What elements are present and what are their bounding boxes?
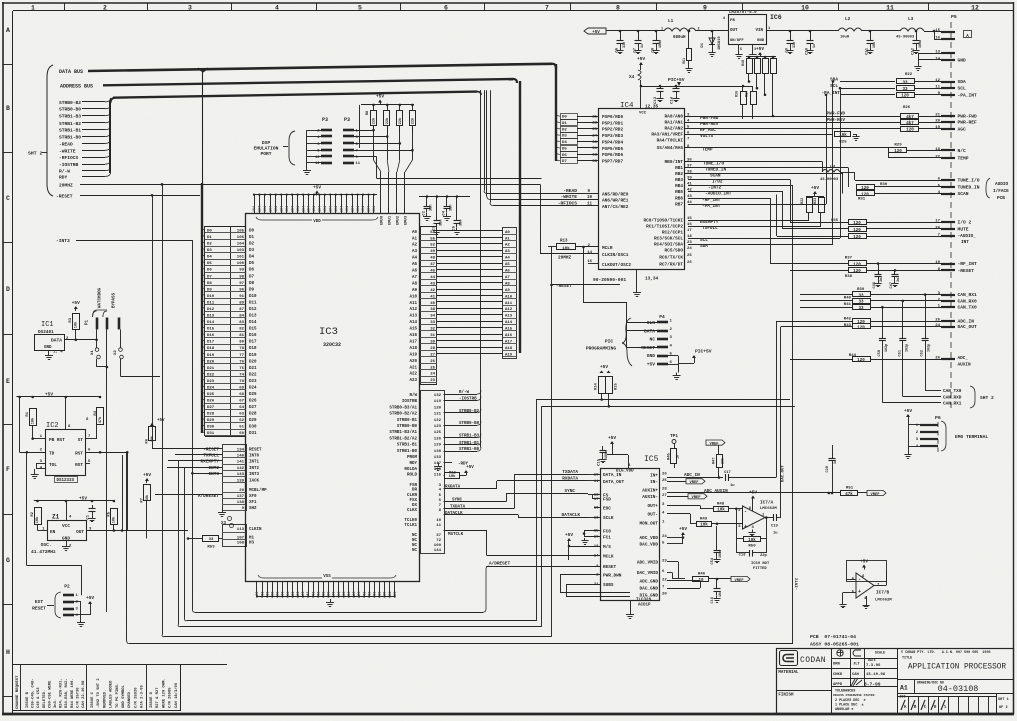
svg-text:A9: A9 bbox=[412, 289, 418, 293]
svg-text:FC0: FC0 bbox=[603, 529, 611, 534]
svg-text:102p: 102p bbox=[885, 344, 889, 352]
svg-text:R38: R38 bbox=[845, 275, 853, 279]
svg-text:104: 104 bbox=[285, 206, 289, 212]
svg-text:22: 22 bbox=[592, 122, 597, 126]
svg-text:C50: C50 bbox=[878, 350, 882, 356]
svg-text:I/O2: I/O2 bbox=[712, 180, 723, 185]
svg-text:ROLD: ROLD bbox=[407, 473, 418, 477]
svg-text:RESET: RESET bbox=[603, 565, 617, 570]
svg-text:2 PLACES DEC ±: 2 PLACES DEC ± bbox=[835, 699, 866, 703]
svg-text:STRB1-B1: STRB1-B1 bbox=[459, 442, 480, 446]
svg-text:DATA_OUT: DATA_OUT bbox=[603, 480, 624, 485]
svg-text:C11: C11 bbox=[866, 47, 870, 55]
svg-text:120: 120 bbox=[857, 359, 865, 363]
svg-text:12: 12 bbox=[971, 4, 979, 11]
svg-text:A1: A1 bbox=[412, 237, 418, 241]
svg-text:3: 3 bbox=[188, 4, 192, 11]
svg-text:X4: X4 bbox=[629, 75, 635, 80]
svg-text:+5V: +5V bbox=[860, 559, 868, 565]
svg-text:VSS: VSS bbox=[323, 575, 331, 579]
svg-text:126: 126 bbox=[434, 437, 442, 441]
svg-text:D5: D5 bbox=[562, 147, 567, 151]
svg-text:UNLESS OTHERWISE STATED: UNLESS OTHERWISE STATED bbox=[833, 694, 875, 697]
svg-text:PROGRAMMING: PROGRAMMING bbox=[586, 346, 617, 352]
svg-text:ADDRESS BUS: ADDRESS BUS bbox=[60, 84, 93, 90]
svg-text:8-7-99: 8-7-99 bbox=[864, 682, 881, 688]
svg-text:D6: D6 bbox=[249, 269, 255, 273]
svg-text:-INT2: -INT2 bbox=[708, 186, 722, 191]
svg-text:37: 37 bbox=[687, 165, 692, 169]
svg-text:R4: R4 bbox=[94, 410, 98, 415]
svg-text:LABLES ADDED: LABLES ADDED bbox=[110, 680, 114, 708]
svg-text:R16: R16 bbox=[736, 91, 740, 97]
svg-text:37: 37 bbox=[436, 534, 441, 538]
svg-text:41.472MHz: 41.472MHz bbox=[31, 549, 56, 555]
svg-text:86: 86 bbox=[362, 592, 366, 596]
svg-text:18: 18 bbox=[935, 148, 940, 152]
svg-text:WERE 120 OHM.: WERE 120 OHM. bbox=[162, 678, 166, 708]
svg-text:17: 17 bbox=[935, 219, 940, 223]
svg-text:119: 119 bbox=[434, 400, 442, 404]
svg-text:MCLK: MCLK bbox=[603, 554, 614, 559]
svg-text:100n: 100n bbox=[919, 40, 923, 48]
svg-text:+5V: +5V bbox=[45, 393, 53, 398]
svg-text:INT: INT bbox=[961, 240, 969, 245]
svg-text:47k: 47k bbox=[98, 416, 103, 423]
svg-text:HJA 2-3-99: HJA 2-3-99 bbox=[141, 684, 145, 708]
svg-text:130: 130 bbox=[434, 450, 442, 454]
svg-text:R/W: R/W bbox=[409, 393, 417, 398]
svg-text:STRB0-B2: STRB0-B2 bbox=[59, 100, 81, 106]
svg-text:PSP0/RD0: PSP0/RD0 bbox=[602, 115, 623, 120]
svg-text:C3: C3 bbox=[433, 225, 437, 230]
svg-text:86: 86 bbox=[383, 592, 387, 596]
svg-text:10k: 10k bbox=[562, 246, 570, 251]
svg-text:DAC_OUT: DAC_OUT bbox=[782, 465, 786, 482]
svg-text:C54: C54 bbox=[711, 557, 715, 564]
svg-text:P3: P3 bbox=[344, 117, 350, 123]
svg-text:33: 33 bbox=[858, 294, 864, 298]
svg-text:104: 104 bbox=[279, 206, 283, 212]
svg-text:33n: 33n bbox=[460, 220, 464, 226]
svg-text:D17: D17 bbox=[249, 341, 257, 345]
svg-text:FSX: FSX bbox=[409, 499, 417, 503]
svg-text:ISSUE C: ISSUE C bbox=[91, 691, 95, 708]
svg-text:13: 13 bbox=[594, 516, 599, 520]
svg-text:OUT+: OUT+ bbox=[647, 504, 658, 509]
svg-text:33: 33 bbox=[858, 307, 864, 311]
svg-text:38: 38 bbox=[687, 171, 692, 175]
svg-text:C6: C6 bbox=[616, 47, 620, 52]
svg-text:H: H bbox=[6, 649, 10, 656]
svg-text:PCB 07-01741-04: PCB 07-01741-04 bbox=[810, 634, 856, 640]
svg-text:104: 104 bbox=[329, 206, 333, 212]
svg-text:IC7/A: IC7/A bbox=[760, 501, 774, 506]
svg-text:104: 104 bbox=[258, 206, 262, 212]
svg-text:33n: 33n bbox=[440, 220, 444, 226]
svg-text:CHANGED.: CHANGED. bbox=[128, 690, 132, 708]
svg-text:RC2/CCP1: RC2/CCP1 bbox=[662, 231, 683, 236]
svg-text:G: G bbox=[6, 557, 10, 564]
svg-text:IC1: IC1 bbox=[41, 321, 54, 329]
svg-text:21: 21 bbox=[592, 115, 597, 119]
svg-text:3n3: 3n3 bbox=[897, 276, 901, 282]
svg-text:-IOSTRB: -IOSTRB bbox=[459, 397, 477, 401]
svg-text:109: 109 bbox=[434, 544, 442, 548]
svg-text:D22: D22 bbox=[249, 373, 257, 377]
svg-text:+5V: +5V bbox=[904, 408, 912, 414]
svg-text:144: 144 bbox=[434, 549, 442, 553]
svg-text:102p: 102p bbox=[928, 344, 932, 352]
svg-text:RC0/T1OSO/T1CKI: RC0/T1OSO/T1CKI bbox=[643, 219, 683, 224]
svg-text:+5V: +5V bbox=[86, 595, 94, 601]
svg-text:23: 23 bbox=[662, 559, 667, 563]
svg-text:WATCHDOG: WATCHDOG bbox=[99, 287, 103, 308]
svg-text:107: 107 bbox=[237, 536, 245, 540]
svg-text:33: 33 bbox=[902, 88, 908, 92]
svg-text:36: 36 bbox=[687, 159, 692, 163]
svg-text:DATA BUS: DATA BUS bbox=[59, 69, 83, 75]
svg-text:SHT 2: SHT 2 bbox=[980, 395, 994, 401]
svg-text:A8: A8 bbox=[412, 282, 418, 286]
svg-text:STRB1-B1: STRB1-B1 bbox=[397, 444, 418, 448]
svg-text:ISSUE D: ISSUE D bbox=[150, 691, 154, 708]
svg-text:D: D bbox=[6, 286, 10, 293]
svg-text:IN-: IN- bbox=[650, 480, 658, 485]
svg-text:11: 11 bbox=[587, 203, 593, 207]
svg-text:TUNED_IN: TUNED_IN bbox=[958, 185, 980, 191]
svg-text:A12: A12 bbox=[409, 308, 417, 312]
svg-text:LMC662M: LMC662M bbox=[760, 507, 777, 511]
svg-text:C9: C9 bbox=[786, 47, 790, 52]
svg-text:TXDATA: TXDATA bbox=[562, 470, 578, 475]
svg-text:25: 25 bbox=[662, 479, 667, 483]
svg-text:20MHZ: 20MHZ bbox=[558, 256, 572, 261]
svg-text:31: 31 bbox=[592, 147, 597, 151]
svg-text:86: 86 bbox=[342, 592, 346, 596]
svg-text:16: 16 bbox=[935, 37, 940, 41]
svg-text:D18: D18 bbox=[249, 347, 257, 351]
svg-text:86: 86 bbox=[393, 592, 397, 596]
svg-text:CAH 18/3/99: CAH 18/3/99 bbox=[174, 682, 179, 708]
svg-text:INT0: INT0 bbox=[249, 455, 260, 459]
svg-text:MCLR: MCLR bbox=[602, 246, 613, 251]
svg-text:33: 33 bbox=[592, 160, 597, 164]
svg-text:R30: R30 bbox=[880, 183, 888, 187]
svg-text:GND: GND bbox=[647, 353, 656, 359]
svg-text:8: 8 bbox=[616, 4, 620, 11]
svg-text:ASSY 08-05265-001: ASSY 08-05265-001 bbox=[810, 642, 859, 648]
svg-text:R44 WERE 100.: R44 WERE 100. bbox=[71, 678, 75, 708]
svg-text:19: 19 bbox=[935, 126, 940, 130]
svg-text:86: 86 bbox=[260, 592, 264, 596]
svg-text:R2: R2 bbox=[31, 511, 35, 516]
svg-text:DATA_IN: DATA_IN bbox=[603, 473, 622, 478]
svg-text:INT3: INT3 bbox=[249, 473, 260, 477]
svg-text:DATA: DATA bbox=[644, 328, 655, 334]
svg-text:11: 11 bbox=[935, 86, 940, 90]
svg-text:C49 & C53: C49 & C53 bbox=[37, 687, 41, 708]
svg-text:48: 48 bbox=[430, 257, 435, 261]
svg-text:C16: C16 bbox=[711, 597, 715, 603]
svg-text:D29: D29 bbox=[249, 419, 257, 423]
svg-text:ROLDA: ROLDA bbox=[404, 468, 417, 472]
svg-text:104: 104 bbox=[345, 206, 349, 212]
svg-text:EMG TERMINAL: EMG TERMINAL bbox=[955, 434, 988, 440]
svg-text:11: 11 bbox=[356, 162, 361, 166]
svg-text:IC59 NOT: IC59 NOT bbox=[751, 562, 770, 566]
svg-text:1: 1 bbox=[31, 4, 35, 11]
svg-text:+5V: +5V bbox=[79, 497, 87, 502]
svg-text:D7: D7 bbox=[249, 275, 255, 279]
svg-text:-RESET: -RESET bbox=[958, 268, 975, 274]
svg-text:INT1: INT1 bbox=[249, 461, 260, 465]
svg-text:-INT3: -INT3 bbox=[56, 238, 70, 244]
svg-text:1 PLACE DEC ±: 1 PLACE DEC ± bbox=[835, 704, 864, 708]
svg-text:-PA_INT: -PA_INT bbox=[958, 92, 978, 98]
svg-text:D12: D12 bbox=[249, 308, 257, 312]
svg-text:D15: D15 bbox=[249, 328, 257, 332]
svg-text:D13: D13 bbox=[249, 315, 257, 319]
svg-text:PSP7/RD7: PSP7/RD7 bbox=[602, 159, 623, 164]
svg-text:MCBL/MP: MCBL/MP bbox=[249, 488, 267, 493]
svg-text:CLKX: CLKX bbox=[407, 509, 418, 513]
svg-text:D0: D0 bbox=[249, 230, 255, 234]
svg-text:RC6/TX/CK: RC6/TX/CK bbox=[659, 256, 683, 261]
svg-text:RESET: RESET bbox=[249, 448, 262, 452]
svg-text:DAC_VDD: DAC_VDD bbox=[640, 542, 659, 547]
svg-text:I/O 2: I/O 2 bbox=[958, 220, 972, 226]
svg-text:10k: 10k bbox=[449, 474, 457, 479]
svg-text:FSD: FSD bbox=[603, 498, 611, 503]
svg-text:FSR: FSR bbox=[409, 484, 417, 488]
svg-text:A23: A23 bbox=[409, 379, 417, 383]
svg-text:RB5: RB5 bbox=[675, 190, 683, 195]
svg-text:STRB1-B3/A1: STRB1-B3/A1 bbox=[389, 430, 417, 435]
svg-text:DELETED.: DELETED. bbox=[43, 690, 47, 708]
svg-text:RST: RST bbox=[75, 463, 83, 468]
svg-text:A13: A13 bbox=[409, 315, 417, 319]
svg-text:115: 115 bbox=[434, 473, 442, 477]
svg-text:D0: D0 bbox=[562, 116, 567, 120]
svg-text:C36-C45, C48-: C36-C45, C48- bbox=[32, 678, 36, 708]
svg-text:R5: R5 bbox=[108, 511, 112, 516]
svg-text:CAN_RX0: CAN_RX0 bbox=[958, 298, 978, 304]
svg-text:15: 15 bbox=[935, 29, 940, 33]
svg-text:C/R 25730: C/R 25730 bbox=[75, 687, 80, 708]
svg-text:GND: GND bbox=[44, 346, 52, 350]
svg-text:A4: A4 bbox=[412, 257, 418, 261]
svg-text:47k: 47k bbox=[845, 492, 853, 497]
svg-text:R34-R38, R42-: R34-R38, R42- bbox=[65, 678, 69, 708]
svg-text:IC4: IC4 bbox=[620, 102, 634, 110]
svg-text:PWR_DWN: PWR_DWN bbox=[603, 573, 622, 578]
svg-text:86: 86 bbox=[271, 592, 275, 596]
svg-text:CAN_TX0: CAN_TX0 bbox=[943, 389, 962, 394]
svg-text:10u: 10u bbox=[873, 42, 877, 48]
svg-text:-SH2 TO SHT 2: -SH2 TO SHT 2 bbox=[97, 678, 101, 708]
svg-text:PIC: PIC bbox=[605, 339, 614, 345]
svg-text:20MHZ: 20MHZ bbox=[59, 182, 73, 188]
svg-text:10k: 10k bbox=[30, 417, 35, 424]
svg-text:10: 10 bbox=[801, 4, 809, 11]
svg-text:MSTCLK: MSTCLK bbox=[448, 533, 464, 537]
svg-text:129: 129 bbox=[434, 444, 442, 448]
svg-text:104: 104 bbox=[301, 206, 305, 212]
svg-text:D4: D4 bbox=[249, 256, 255, 260]
svg-text:+5V: +5V bbox=[647, 362, 656, 368]
svg-text:18: 18 bbox=[594, 545, 599, 549]
svg-text:FB: FB bbox=[730, 19, 735, 23]
svg-text:ADC_IN: ADC_IN bbox=[684, 473, 700, 478]
svg-text:1: 1 bbox=[661, 28, 663, 32]
svg-text:D27: D27 bbox=[249, 406, 257, 410]
svg-text:STRB1-B0: STRB1-B0 bbox=[459, 448, 480, 452]
svg-text:86: 86 bbox=[378, 592, 382, 596]
svg-text:TITLE: TITLE bbox=[902, 656, 912, 660]
svg-text:CAN_RX1: CAN_RX1 bbox=[943, 402, 962, 407]
svg-text:28: 28 bbox=[662, 488, 667, 492]
svg-text:20: 20 bbox=[662, 593, 667, 597]
svg-text:R7: R7 bbox=[141, 497, 145, 502]
svg-text:86: 86 bbox=[332, 592, 336, 596]
svg-text:TUNED_IN: TUNED_IN bbox=[705, 168, 726, 173]
svg-text:C: C bbox=[6, 195, 10, 202]
svg-text:PSP6/RD6: PSP6/RD6 bbox=[602, 153, 623, 158]
svg-text:10k: 10k bbox=[74, 321, 79, 328]
svg-text:15-10-98: 15-10-98 bbox=[866, 673, 886, 677]
svg-text:AUXIN-: AUXIN- bbox=[642, 495, 658, 500]
svg-text:12,35: 12,35 bbox=[645, 105, 659, 110]
svg-text:104: 104 bbox=[356, 206, 360, 212]
svg-text:+5V: +5V bbox=[466, 466, 474, 470]
svg-text:125: 125 bbox=[434, 431, 442, 435]
svg-text:DATACLK: DATACLK bbox=[562, 513, 581, 518]
svg-text:+5V: +5V bbox=[143, 472, 151, 478]
svg-text:PWR-REF: PWR-REF bbox=[958, 120, 978, 126]
svg-text:33n: 33n bbox=[430, 205, 434, 211]
svg-text:108: 108 bbox=[237, 542, 245, 546]
svg-text:R17: R17 bbox=[746, 91, 750, 97]
svg-text:-READ: -READ bbox=[59, 141, 73, 147]
svg-text:+5V: +5V bbox=[608, 435, 616, 441]
svg-text:ADC_: ADC_ bbox=[958, 356, 969, 361]
svg-text:STRB0-B2: STRB0-B2 bbox=[459, 410, 480, 414]
svg-text:104: 104 bbox=[318, 206, 322, 212]
svg-text:IC3: IC3 bbox=[319, 326, 338, 338]
svg-text:120: 120 bbox=[853, 229, 861, 233]
svg-text:R8: R8 bbox=[366, 111, 370, 115]
svg-text:EOC: EOC bbox=[603, 506, 611, 511]
svg-text:+5V: +5V bbox=[72, 300, 80, 306]
svg-text:XF0: XF0 bbox=[249, 495, 257, 499]
svg-text:5: 5 bbox=[740, 48, 742, 52]
svg-text:D3: D3 bbox=[249, 249, 255, 253]
svg-text:86: 86 bbox=[327, 592, 331, 596]
svg-text:D1: D1 bbox=[249, 236, 255, 240]
svg-text:CLKOUT/OSC2: CLKOUT/OSC2 bbox=[602, 263, 631, 268]
svg-text:BYPASS: BYPASS bbox=[113, 292, 117, 308]
svg-text:DATE: DATE bbox=[868, 658, 876, 662]
svg-text:D28: D28 bbox=[207, 413, 215, 417]
svg-text:SCAN: SCAN bbox=[710, 174, 721, 179]
svg-text:104: 104 bbox=[263, 206, 267, 212]
svg-text:C51: C51 bbox=[898, 350, 902, 356]
svg-text:R3: R3 bbox=[69, 317, 73, 322]
svg-text:D7: D7 bbox=[562, 160, 567, 164]
svg-text:22k: 22k bbox=[385, 117, 390, 124]
svg-text:EMU3: EMU3 bbox=[405, 215, 409, 225]
svg-text:P3: P3 bbox=[322, 117, 328, 123]
svg-text:DATA: DATA bbox=[51, 338, 62, 344]
svg-text:AN5/RD/RE0: AN5/RD/RE0 bbox=[602, 192, 629, 197]
svg-text:133: 133 bbox=[434, 456, 442, 460]
svg-text:STRB0-B0: STRB0-B0 bbox=[459, 422, 480, 426]
svg-text:A2: A2 bbox=[412, 244, 418, 248]
svg-text:10k: 10k bbox=[700, 523, 708, 528]
svg-text:104: 104 bbox=[269, 206, 273, 212]
svg-text:RB7: RB7 bbox=[675, 203, 683, 208]
svg-text:C8: C8 bbox=[652, 47, 656, 52]
svg-text:+5V: +5V bbox=[592, 31, 600, 35]
svg-text:VDD: VDD bbox=[313, 220, 321, 224]
svg-text:26: 26 bbox=[662, 473, 667, 477]
svg-text:10k: 10k bbox=[748, 538, 756, 543]
svg-text:C52: C52 bbox=[921, 350, 925, 356]
svg-text:N/C: N/C bbox=[958, 148, 967, 154]
svg-text:20: 20 bbox=[935, 120, 940, 124]
svg-text:NC: NC bbox=[412, 549, 418, 553]
svg-text:D8: D8 bbox=[249, 282, 255, 286]
svg-text:10k: 10k bbox=[717, 508, 725, 513]
svg-text:IC5: IC5 bbox=[644, 455, 659, 464]
svg-text:+5V: +5V bbox=[811, 185, 819, 191]
svg-text:CLK: CLK bbox=[647, 320, 656, 326]
svg-text:DAC_OUT: DAC_OUT bbox=[958, 324, 978, 330]
svg-text:D26: D26 bbox=[249, 400, 257, 404]
svg-text:ANGULAR ±: ANGULAR ± bbox=[835, 708, 853, 712]
svg-text:117: 117 bbox=[434, 462, 442, 466]
svg-text:D23: D23 bbox=[249, 380, 257, 384]
svg-text:R51: R51 bbox=[846, 487, 854, 491]
svg-text:LMC662M: LMC662M bbox=[875, 599, 892, 603]
svg-text:104: 104 bbox=[350, 206, 354, 212]
svg-text:27: 27 bbox=[662, 494, 667, 498]
svg-text:-WRITE: -WRITE bbox=[560, 194, 577, 200]
svg-text:TD: TD bbox=[49, 452, 55, 457]
svg-text:A/DRESET: A/DRESET bbox=[489, 562, 510, 567]
svg-text:86: 86 bbox=[301, 592, 305, 596]
svg-text:ADC_IN: ADC_IN bbox=[958, 319, 975, 325]
svg-text:MUTE: MUTE bbox=[958, 227, 969, 233]
svg-text:H3: H3 bbox=[249, 542, 255, 546]
svg-text:MON_OUT: MON_OUT bbox=[640, 522, 659, 527]
svg-text:120: 120 bbox=[853, 270, 861, 274]
svg-text:A3: A3 bbox=[412, 250, 418, 254]
svg-text:REMOVED.: REMOVED. bbox=[103, 690, 107, 708]
svg-text:OUT-: OUT- bbox=[647, 512, 658, 517]
svg-text:120: 120 bbox=[434, 406, 442, 410]
svg-text:A7: A7 bbox=[412, 276, 418, 280]
svg-text:R33: R33 bbox=[814, 198, 818, 204]
svg-text:STRB0-B1: STRB0-B1 bbox=[397, 419, 418, 423]
svg-text:RB4: RB4 bbox=[675, 184, 683, 189]
svg-text:+5V: +5V bbox=[637, 56, 645, 62]
svg-text:-INT3: -INT3 bbox=[206, 472, 220, 477]
svg-text:R50: R50 bbox=[748, 545, 756, 549]
svg-text:23: 23 bbox=[592, 128, 597, 132]
svg-text:A14: A14 bbox=[409, 321, 417, 325]
